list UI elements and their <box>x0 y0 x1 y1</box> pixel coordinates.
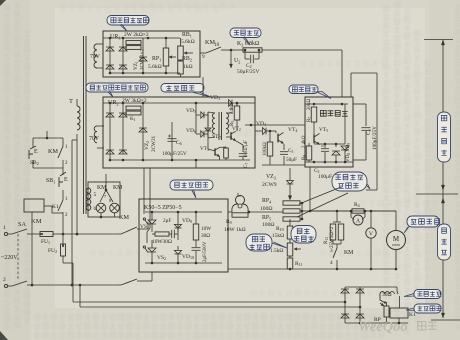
svg-text:R4​: R4​ <box>354 202 360 208</box>
diode VD10 bottom <box>174 250 181 254</box>
main line from amplifier down <box>309 167 311 211</box>
resistor R6 510 <box>220 146 226 148</box>
green indicator lamp <box>96 203 106 213</box>
svg-text:5.6kΩ: 5.6kΩ <box>181 39 195 45</box>
svg-text:RP5​: RP5​ <box>262 215 271 221</box>
svg-text:KM: KM <box>48 148 58 155</box>
transistor VT2 <box>230 132 232 140</box>
callout bubble: half controlled rectifier bridge <box>170 180 213 190</box>
resistor 100k <box>267 142 273 156</box>
svg-text:100Ω: 100Ω <box>262 222 275 228</box>
svg-text:30Ω: 30Ω <box>201 233 210 239</box>
svg-text:VT4​: VT4​ <box>288 127 297 133</box>
transformer secondary winding 5-6 (lamp circuit) <box>86 188 89 210</box>
field winding bubble 励磁绕组 <box>414 290 441 299</box>
wire control chain top node <box>46 131 48 138</box>
transformer secondary winding 70V (top, for UR1) <box>94 44 97 68</box>
field bridge right leg <box>359 287 361 323</box>
svg-text:70V: 70V <box>89 136 100 142</box>
potentiometer RP1 <box>163 48 169 66</box>
svg-text:T: T <box>69 98 73 105</box>
zener VD stack 1 <box>335 144 337 147</box>
vertical label: main circuit <box>438 224 451 260</box>
AC neutral wire <box>27 284 117 286</box>
resistor R5 24k <box>234 106 240 120</box>
svg-text:2.4kΩ: 2.4kΩ <box>302 135 307 148</box>
pulse transformer TP <box>207 112 209 138</box>
zener VZ2 2CW21 <box>139 128 147 132</box>
wire top feedback to amplifier box <box>341 50 343 97</box>
field bridge top rail <box>345 286 397 288</box>
svg-text:100Ω: 100Ω <box>260 206 273 212</box>
svg-text:100kΩ: 100kΩ <box>263 142 268 156</box>
switch SA gang dashed link <box>17 234 19 281</box>
loss-of-field protection bubble 失磁保护 <box>414 304 441 313</box>
svg-text:RB1​: RB1​ <box>182 32 192 38</box>
box1 bottom rail <box>110 72 180 74</box>
svg-text:VZ3​: VZ3​ <box>266 174 276 180</box>
block box: voltage amplifier <box>305 97 353 167</box>
contactor contact KM (line B) <box>117 284 121 286</box>
box1 to box2 connector wire <box>202 77 204 97</box>
transistor VT3 <box>214 148 216 155</box>
svg-text:RP4​: RP4​ <box>262 198 272 204</box>
svg-text:FU2​: FU2​ <box>48 248 57 254</box>
svg-text:1: 1 <box>3 225 6 231</box>
capacitor C5 50uF <box>283 144 285 150</box>
svg-text:E: E <box>64 177 68 183</box>
lamp bottom wires <box>100 213 102 217</box>
wire box3 output to reactor <box>228 211 232 213</box>
svg-text:5: 5 <box>94 192 97 198</box>
power terminal 1 and switch SA upper pole <box>4 232 7 235</box>
thyristor VS2 <box>148 248 156 252</box>
svg-text:VD8​ VD9​: VD8​ VD9​ <box>346 143 351 162</box>
svg-text:VD10​: VD10​ <box>182 254 194 260</box>
feedback tap diagonal wires <box>299 187 341 204</box>
svg-text:2CW21×2: 2CW21×2 <box>141 49 146 70</box>
svg-text:K1: K1 <box>52 204 59 210</box>
ammeter A <box>350 211 352 217</box>
capacitor 2uF/500V <box>192 247 201 249</box>
relay contact K1 <box>62 196 64 200</box>
bus wire lower B <box>80 306 360 308</box>
svg-text:E: E <box>34 149 38 155</box>
push button SB2 <box>32 138 34 148</box>
potentiometer RP6 1.5k <box>287 243 293 256</box>
vertical label: control circuit <box>438 112 451 162</box>
svg-text:1kΩ: 1kΩ <box>183 64 193 70</box>
scan corner marks <box>0 0 6 6</box>
resistor 10W 30R right <box>193 224 199 240</box>
resistor R8 2.4k <box>306 146 312 160</box>
field bridge left leg <box>344 287 346 323</box>
wire meter rail <box>310 210 352 212</box>
box3 bottom rail <box>145 262 222 264</box>
svg-text:10W 1kΩ: 10W 1kΩ <box>224 227 246 233</box>
voltmeter V <box>370 211 372 228</box>
wire box1 to KM contact 9-10 <box>200 52 206 54</box>
svg-text:U2​: U2​ <box>234 58 240 64</box>
svg-text:R8​: R8​ <box>302 155 307 160</box>
svg-text:10W30Ω: 10W30Ω <box>152 239 172 245</box>
svg-text:100μF: 100μF <box>318 174 332 180</box>
svg-text:100μF/25V: 100μF/25V <box>162 151 187 157</box>
block box: given voltage circuit <box>103 31 200 77</box>
svg-text:FU1​: FU1​ <box>41 239 50 245</box>
resistor R7 20k <box>311 107 317 122</box>
svg-text:R9​: R9​ <box>226 219 232 225</box>
capacitor C6 100uF <box>171 122 173 160</box>
diode VD7 <box>207 112 209 126</box>
callout bubble: given voltage circuit <box>107 16 149 26</box>
svg-text:WeeQoo: WeeQoo <box>358 319 408 335</box>
svg-text:5.6kΩ: 5.6kΩ <box>148 64 162 70</box>
svg-text:0.047μF: 0.047μF <box>244 140 249 157</box>
svg-text:K1: K1 <box>409 312 416 318</box>
box3 top rail <box>145 211 222 213</box>
resistor R9 10W 1k <box>232 213 248 217</box>
lamp circuit winding <box>88 188 91 210</box>
capacitor C4 100uF/25V <box>353 103 366 105</box>
svg-text:50μF: 50μF <box>286 157 297 163</box>
svg-text:4: 4 <box>330 260 333 266</box>
zener VZ1 2CW21x2 <box>139 57 147 61</box>
amplifier top rail <box>305 103 348 105</box>
capacitor in amplifier <box>324 144 326 148</box>
svg-text:2μF: 2μF <box>163 218 171 224</box>
svg-text:25W5Ω×2: 25W5Ω×2 <box>330 226 335 248</box>
wire to second bus <box>79 285 81 307</box>
potentiometer RP7 <box>384 306 389 317</box>
KM auxiliary contacts to lamps <box>105 182 107 190</box>
field bridge bottom rail <box>345 322 408 324</box>
svg-text:20kΩ: 20kΩ <box>307 99 312 111</box>
gate drive wires to thyristors <box>143 168 145 214</box>
svg-text:2: 2 <box>3 277 6 283</box>
svg-text:2W 2kΩ×2: 2W 2kΩ×2 <box>124 32 149 38</box>
wire lamp feed stub <box>105 174 107 182</box>
svg-text:M: M <box>393 235 400 243</box>
relay contact KM (self-hold) <box>62 138 64 146</box>
svg-text:K2​ 6.8kΩ: K2​ 6.8kΩ <box>237 41 260 47</box>
power terminal 2 and switch SA lower pole <box>4 284 7 287</box>
voltage negative feedback bubble 电压负反馈 <box>246 234 272 251</box>
svg-text:24kΩ: 24kΩ <box>230 103 235 115</box>
svg-text:R7​: R7​ <box>307 117 312 122</box>
amplifier bottom rail <box>305 161 353 163</box>
fuse FU2 <box>62 234 64 244</box>
svg-text:KM: KM <box>344 250 353 256</box>
svg-text:VD6​: VD6​ <box>186 128 196 134</box>
capacitor C2 parallel <box>244 50 246 59</box>
wire join parallel branches <box>33 167 63 169</box>
svg-text:70V: 70V <box>90 54 101 60</box>
callout bubble: trapezoid sync voltage forming <box>86 83 148 92</box>
fuse FU1 <box>27 233 40 235</box>
wire T primary to AC lines <box>76 134 78 234</box>
contactor coil KM <box>24 199 44 212</box>
svg-text:KM: KM <box>113 185 122 191</box>
relay coil K1 <box>390 308 408 318</box>
transistor VT5 <box>313 135 315 144</box>
svg-text:SB1​: SB1​ <box>46 178 55 184</box>
box2 top rail <box>103 102 255 104</box>
box1 top rail <box>103 37 180 39</box>
inner label: voltage amplifier <box>320 110 326 116</box>
bus wire lower A <box>73 301 345 303</box>
block box: sync voltage and trigger circuit <box>103 97 255 168</box>
stop button SB1 <box>62 168 64 175</box>
node U2 arrow <box>230 49 233 52</box>
annotation vertical line <box>442 40 444 318</box>
svg-text:VD9​: VD9​ <box>182 218 192 224</box>
indicator lamp box <box>88 182 120 217</box>
amplifier collector rail <box>314 143 345 145</box>
bridge rectifier UR1 diodes <box>106 47 114 51</box>
svg-text:VD4​: VD4​ <box>256 121 266 127</box>
callout bubble: trigger circuit <box>161 84 204 93</box>
current cutoff feedback bubble 电流截止负反馈 <box>332 172 367 191</box>
svg-text:SA: SA <box>18 221 26 228</box>
svg-text:VS1​: VS1​ <box>140 224 149 230</box>
annotation top tick <box>424 39 453 41</box>
svg-text:2μF/500V: 2μF/500V <box>203 241 208 262</box>
svg-text:VS2​: VS2​ <box>157 255 166 261</box>
block box: half controlled rectifier bridge <box>139 199 228 272</box>
callout bubble: voltage amplifier <box>289 85 318 94</box>
svg-text:VD5​: VD5​ <box>186 108 196 114</box>
transformer secondary winding 70V (middle, for UR2) <box>94 126 97 143</box>
svg-text:2CW9: 2CW9 <box>262 182 277 188</box>
svg-text:15kΩ: 15kΩ <box>272 233 284 239</box>
svg-text:UR1​: UR1​ <box>110 34 121 40</box>
svg-text:1.5kΩ: 1.5kΩ <box>270 248 283 254</box>
capacitor C7 0.047uF <box>242 145 244 152</box>
transformer T core <box>83 36 85 214</box>
wire lower link to amplifier <box>262 164 305 166</box>
svg-text:3: 3 <box>330 248 333 254</box>
diode VD9 top <box>174 224 181 228</box>
transformer T primary winding <box>77 106 80 130</box>
svg-text:KM: KM <box>119 214 129 221</box>
box2 bottom rail <box>110 159 250 161</box>
wire FU2 to lower bus <box>63 262 73 264</box>
annotation middle tick <box>416 193 458 195</box>
main control wire to KM contact <box>63 233 117 235</box>
motor M armature <box>395 211 397 230</box>
svg-text:SB2​: SB2​ <box>30 160 39 166</box>
divider right column <box>301 203 303 219</box>
svg-text:10W: 10W <box>201 226 211 232</box>
wire trigger to amplifier <box>245 124 305 126</box>
annotation bottom tick <box>431 319 460 321</box>
red indicator lamp <box>110 203 120 213</box>
series correction bubble 串联校正 <box>230 28 261 38</box>
svg-text:KM: KM <box>31 218 42 225</box>
feedback wire right column <box>376 73 378 190</box>
svg-text:C6​: C6​ <box>176 140 182 146</box>
svg-text:50μF/25V: 50μF/25V <box>237 69 260 75</box>
svg-text:~220V: ~220V <box>1 255 18 261</box>
current positive feedback bubble 电流正反馈 <box>291 226 316 244</box>
middle divider resistor <box>283 209 300 213</box>
svg-text:9: 9 <box>202 54 205 60</box>
thyristor VS1 <box>148 220 156 224</box>
armature winding bubble 电枢绕组 <box>407 216 439 227</box>
svg-text:RP1​: RP1​ <box>152 56 161 62</box>
resistor R11 <box>287 258 293 269</box>
zener diodes VD8 VD9 <box>344 104 346 144</box>
feedback bottom wire <box>366 189 377 191</box>
svg-text:2CW21: 2CW21 <box>151 135 157 152</box>
resistor R10 15k <box>289 219 291 226</box>
svg-text:R10​: R10​ <box>276 226 284 232</box>
wire divider to meters <box>310 210 396 212</box>
svg-text:K50−5 ZP50−5: K50−5 ZP50−5 <box>144 205 182 211</box>
svg-text:VD3​: VD3​ <box>210 95 220 101</box>
bottom rail of divider area <box>228 268 397 270</box>
bridge rectifier UR2 diodes <box>106 113 114 117</box>
svg-text:R11​: R11​ <box>295 261 303 267</box>
svg-text:10: 10 <box>214 42 220 48</box>
transistor VT4 <box>277 134 279 143</box>
